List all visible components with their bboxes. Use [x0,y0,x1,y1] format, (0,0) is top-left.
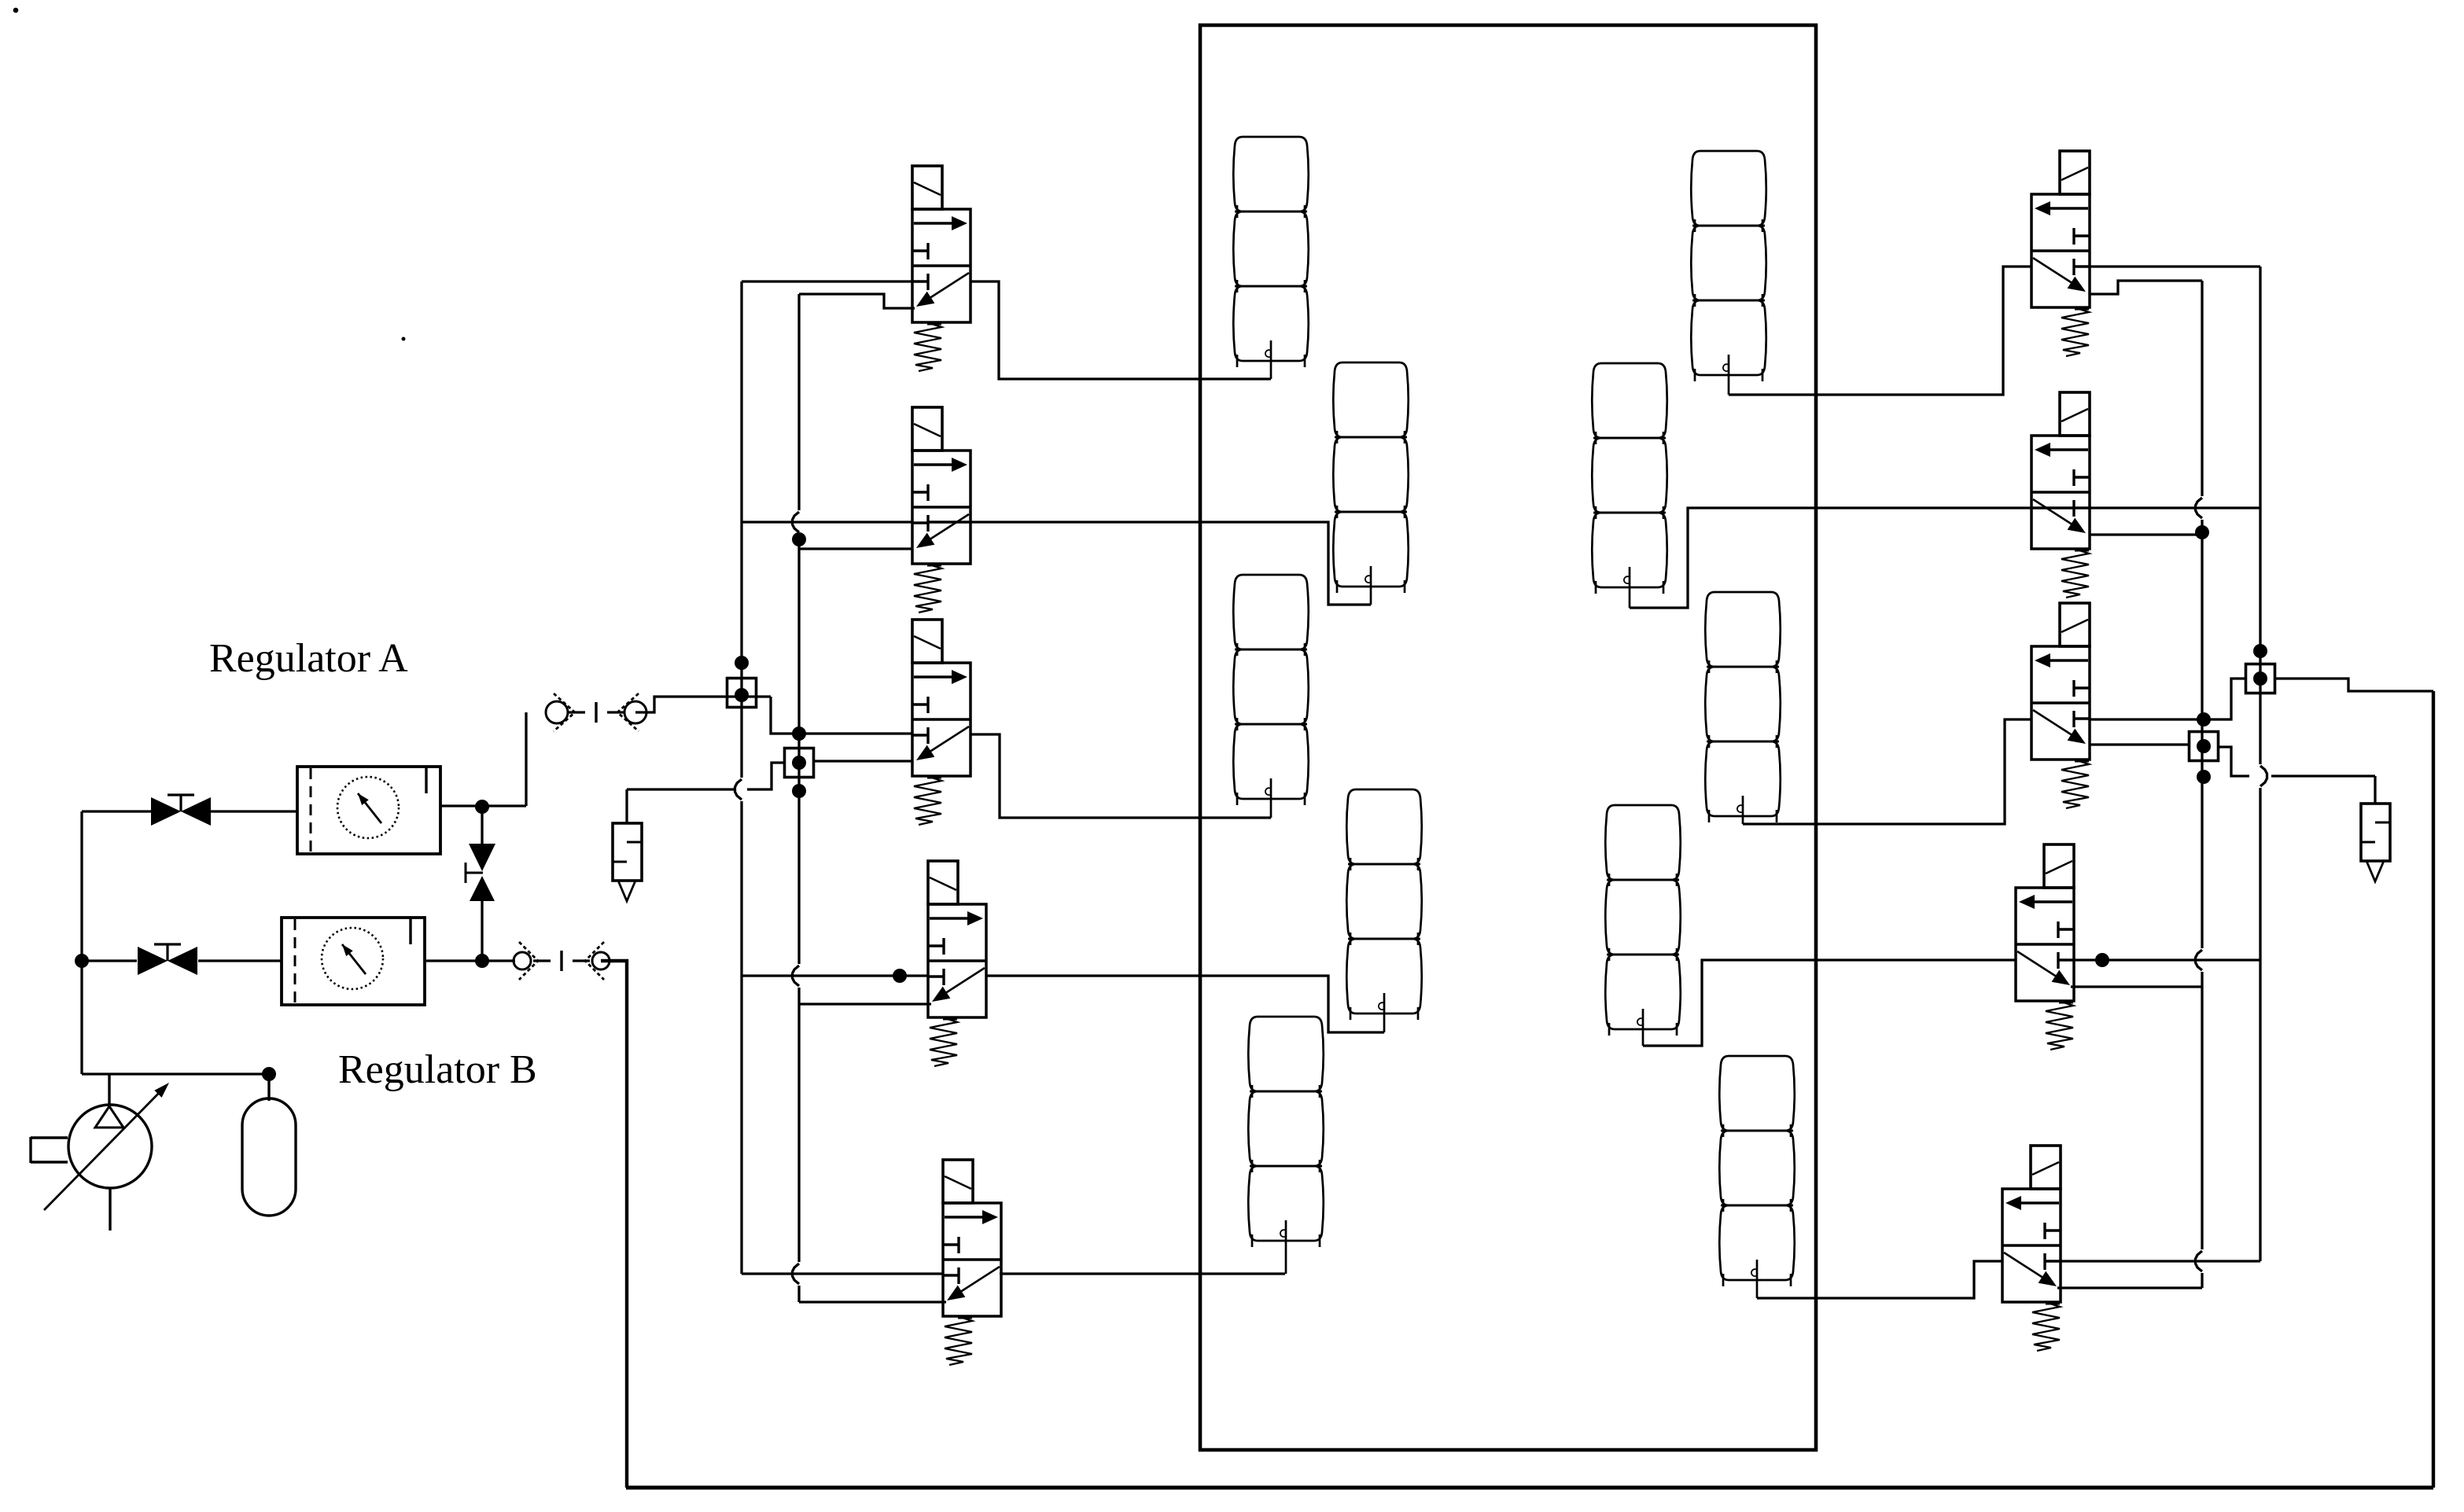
node bus A [735,656,749,670]
valve L1 blocked port (bottom cell) [912,280,928,282]
wire TP3 to R3 supply port [2090,679,2246,719]
valve L1 return spring [927,323,941,326]
test port coupling TP3 [2246,664,2275,693]
pressure regulator B body [282,918,425,1005]
valve L1 exhaust arrow (bottom cell) [925,273,969,301]
bus exhaust hop over R2 wire [2196,498,2203,518]
valve R5 exhaust arrow (bottom cell) [2004,1253,2048,1281]
node regulator B outlet [475,954,489,968]
valve R5 flow arrow (top cell) [2017,1201,2059,1204]
wire R5 out to bellows D3 [1757,1261,2002,1298]
node TP1 [735,688,749,702]
bus A-supply lower segment [740,801,742,1274]
3/2 solenoid valve R3 body [2031,646,2090,760]
test port coupling TP2 [785,749,814,778]
valve R3 flow arrow (top cell) [2046,659,2088,661]
3/2 solenoid valve L4 body [928,904,986,1017]
3/2 solenoid valve L1 body [912,209,970,322]
bus exhaust mid segment [2201,520,2203,948]
svg-text:Regulator B: Regulator B [338,1047,537,1092]
valve R1 blocked port (bottom cell) [2074,265,2090,267]
valve L1 flow arrow (top cell) [914,222,956,224]
3/2 solenoid valve R5 solenoid coil [2031,1146,2061,1189]
check valve CV2 (crossover, lower) [470,876,495,901]
wire L2 through-body segment [928,521,970,523]
pump drive shaft [29,1137,31,1163]
regulator B relief tick [409,918,411,944]
node on R4 supply wire [2095,953,2109,967]
wire CV-A to test port TP1 [635,697,771,712]
wire riser to V2 [82,959,137,962]
3/2 solenoid valve R5 body [2002,1189,2061,1302]
valve R2 blocked port (top cell) [2074,476,2090,478]
3/2 solenoid valve L4 solenoid coil [928,861,958,904]
wire TP1 to L3 supply port [771,697,912,734]
valve L5 return spring [958,1317,972,1319]
exhaust silencer F2 body [2361,804,2390,861]
valve L2 flow arrow (top cell) [914,463,956,465]
bus exhaust bottom segment [797,1286,800,1302]
3/2 solenoid valve R3 solenoid coil [2060,603,2090,646]
wire L1 out to bellows A1 [970,281,1271,379]
wire bus-A to L1 supply [742,280,912,282]
bus exhaust hop over L5 wire [793,1264,800,1284]
wire V1 to regulator A [211,810,297,812]
bus B-supply hop over silencer line [2260,766,2267,786]
valve L5 blocked port (top cell) [943,1243,959,1245]
valve R3 blocked port (top cell) [2074,686,2090,689]
wire bus-A to L4 supply [742,974,928,977]
wire R4 out to bellows C2 [1643,960,2016,1046]
bellows actuator B2 [1346,789,1422,1020]
node below TP2 [792,784,806,798]
shut-off valve V1 [151,797,181,826]
stray mark [402,337,406,341]
valve L4 flow arrow (top cell) [930,917,972,919]
wire R4 to exhaust bus [2071,985,2202,988]
check valve CV1 (A to B crossover, upper) [481,807,483,844]
wire TP4 to valve R3 exhaust [2090,743,2189,745]
3/2 solenoid valve L5 solenoid coil [943,1160,973,1203]
valve L4 return spring [943,1018,957,1021]
valve R2 exhaust arrow (bottom cell) [2033,499,2077,528]
valve L3 blocked port (top cell) [912,703,928,705]
wire R5 to exhaust bus [2057,1286,2202,1289]
valve R2 return spring [2075,550,2089,552]
bus B-supply (right) upper segment [2259,267,2261,764]
valve L5 blocked port (bottom cell) [943,1274,959,1276]
3/2 solenoid valve L5 body [943,1203,1001,1316]
valve R4 exhaust arrow (bottom cell) [2017,951,2061,980]
exhaust silencer F1 body [613,823,642,881]
wire V2 to regulator B [198,959,282,962]
3/2 solenoid valve R2 body [2031,436,2090,549]
regulator A relief tick [425,767,427,793]
stray mark top-left [13,8,19,13]
node TP4 [2197,739,2211,753]
bus exhaust segment [797,988,800,1262]
bellows actuator B1 [1333,362,1409,593]
valve R5 return spring [2046,1303,2060,1305]
valve L2 blocked port (top cell) [912,491,928,493]
wire regulator A outlet [440,804,526,807]
check valve pair CV-B [514,952,531,969]
wire TP2 to exhaust silencer F1 [747,763,783,789]
valve L4 blocked port (top cell) [928,944,944,947]
variable displacement pump P1 [68,1105,152,1188]
valve R2 flow arrow (top cell) [2046,448,2088,451]
actuator enclosure frame [1200,25,1816,1450]
3/2 solenoid valve R4 body [2016,888,2074,1001]
valve R5 blocked port (top cell) [2045,1229,2061,1231]
bellows actuator A3 [1248,1017,1324,1247]
wire exhaust bus to L2 [799,547,913,550]
valve L4 exhaust arrow (bottom cell) [941,968,985,996]
wire R1 to exhaust bus [2090,281,2202,294]
3/2 solenoid valve R1 solenoid coil [2060,151,2090,194]
valve R3 blocked port (bottom cell) [2074,717,2090,719]
wire R2 supply to bus-B [2090,506,2260,509]
node below TP4 [2197,770,2211,784]
node TP3 [2253,671,2267,686]
bellows actuator A2 [1233,575,1309,805]
bellows actuator A1 [1233,137,1309,367]
bus A-supply hop over silencer line [735,779,742,800]
3/2 solenoid valve R4 solenoid coil [2044,844,2074,888]
bellows actuator D2 [1705,592,1781,822]
wire riser to V1 [82,810,151,812]
node regulator A feed junction [792,727,806,741]
valve R2 blocked port (bottom cell) [2074,506,2090,509]
node regulator A outlet [475,800,489,814]
bellows actuator C1 [1592,363,1667,594]
bus exhaust hop over R4 wire [2196,950,2203,970]
valve R4 blocked port (bottom cell) [2058,958,2074,961]
bus exhaust hop over R5 wire [2196,1251,2203,1271]
valve L2 exhaust arrow (bottom cell) [925,514,969,543]
3/2 solenoid valve L2 solenoid coil [912,407,942,451]
wire R2 out to bellows C1 [1630,508,2031,608]
wire R1 out to bellows D1 [1729,267,2031,395]
valve R1 blocked port (top cell) [2074,234,2090,237]
valve L2 return spring [927,565,941,567]
check valve CV1 seat [465,863,467,883]
wire L4 out to bellows B2 [987,976,1384,1032]
valve R4 blocked port (top cell) [2058,928,2074,930]
wire L5 out to bellows A3 [1000,1272,1285,1275]
3/2 solenoid valve L2 body [912,451,970,564]
pressure regulator A body [297,767,440,854]
bus exhaust (left) upper segment [797,294,800,510]
wire L2 out to bellows B1 [970,522,1371,605]
wire exhaust bus to L1 [799,294,915,308]
valve L3 flow arrow (top cell) [914,675,956,678]
svg-text:Regulator A: Regulator A [209,636,408,681]
wire regulator B outlet [426,959,515,962]
test port coupling TP4 [2190,732,2219,761]
exhaust silencer F2 drain [2366,861,2384,881]
wire R2 through-body segment [2031,506,2074,509]
3/2 solenoid valve L3 body [912,663,970,776]
bus exhaust (right) upper segment [2201,281,2203,496]
bottom supply rail [626,1486,2433,1490]
regulator A gauge [337,777,399,838]
bellows actuator D1 [1691,151,1766,381]
valve L5 flow arrow (top cell) [945,1216,987,1218]
bellows actuator C2 [1605,805,1681,1036]
wire bus-A to L2 supply [742,521,912,523]
node bus B [2253,644,2267,658]
bus exhaust hop over L4 wire [793,966,800,986]
node exhaust branch R2 [2195,525,2209,539]
valve R5 blocked port (bottom cell) [2045,1260,2061,1262]
valve L3 exhaust arrow (bottom cell) [925,727,969,755]
valve L4 blocked port (bottom cell) [928,975,944,977]
right supply riser [2432,691,2435,1488]
wire regulator A outlet riser [525,712,527,806]
bus exhaust segment [2201,972,2203,1249]
node riser / regulator B branch [75,954,89,968]
valve L3 blocked port (bottom cell) [912,734,928,736]
wire R3 out to bellows D2 [1743,719,2031,824]
valve R4 flow arrow (top cell) [2030,900,2072,903]
bus exhaust hop over L2 wire [793,512,800,532]
3/2 solenoid valve L3 solenoid coil [912,620,942,663]
valve R3 exhaust arrow (bottom cell) [2033,710,2077,738]
3/2 solenoid valve R1 body [2031,194,2090,307]
valve L2 blocked port (bottom cell) [912,521,928,524]
wire TP2 to valve L3 exhaust [813,760,913,762]
bus A-supply (left) upper segment [740,281,742,778]
test port coupling TP1 [727,679,757,708]
exhaust silencer F1 drain [618,881,635,901]
check valve pair CV-A [546,701,568,723]
node exhaust branch L2 [792,532,806,546]
bus exhaust mid segment [797,534,800,964]
valve R1 return spring [2075,308,2089,311]
wire R1 supply to bus-B [2090,265,2260,267]
valve L1 blocked port (top cell) [912,249,928,252]
3/2 solenoid valve R2 solenoid coil [2060,392,2090,436]
node on L4 supply wire [893,969,907,983]
node pump outlet [262,1067,276,1081]
wire right riser to TP3 [2275,679,2433,691]
3/2 solenoid valve L1 solenoid coil [912,166,942,209]
bus B-supply lower segment [2259,788,2261,1261]
accumulator ACC [242,1098,296,1216]
wire TP4 to exhaust silencer F2 [2218,747,2249,776]
valve R1 exhaust arrow (bottom cell) [2033,258,2077,286]
wire bus-A to L5 supply [742,1272,943,1275]
wire R4 supply to bus-B [2074,958,2260,961]
regulator B gauge [322,928,383,989]
bus exhaust bottom segment [2201,1273,2203,1288]
valve R1 flow arrow (top cell) [2046,207,2088,209]
valve R4 return spring [2059,1002,2073,1004]
valve R3 return spring [2075,760,2089,763]
wire exhaust bus to L4 [799,1002,931,1005]
bellows actuator D3 [1719,1056,1795,1286]
valve L5 exhaust arrow (bottom cell) [956,1267,1000,1295]
wire supply riser [80,811,83,1074]
shut-off valve V2 [138,947,168,975]
wire R5 supply to bus-B [2061,1260,2260,1262]
wire L3 out to bellows A2 [970,734,1271,818]
wire R2 to exhaust bus [2090,533,2202,535]
wire regulator B supply to bottom rail [601,961,627,1488]
node regulator B feed junction [2197,712,2211,727]
valve L3 return spring [927,777,941,779]
wire exhaust bus to L5 [799,1300,946,1303]
wire pump to accumulator node [82,1072,269,1075]
node TP2 [792,756,806,770]
